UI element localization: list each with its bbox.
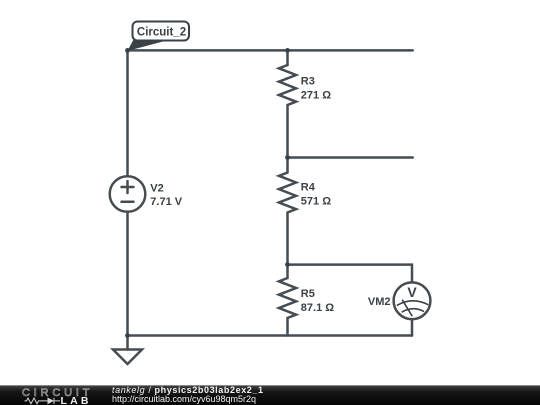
- svg-text:R5: R5: [301, 288, 315, 300]
- svg-text:VM2: VM2: [368, 296, 391, 308]
- svg-text:571 Ω: 571 Ω: [301, 196, 331, 208]
- svg-text:V2: V2: [150, 182, 163, 194]
- svg-text:R4: R4: [301, 182, 316, 194]
- svg-text:V: V: [407, 284, 417, 300]
- svg-text:87.1 Ω: 87.1 Ω: [301, 302, 334, 314]
- svg-text:Circuit_2: Circuit_2: [137, 25, 187, 39]
- svg-text:7.71 V: 7.71 V: [150, 196, 182, 208]
- svg-text:LAB: LAB: [61, 395, 92, 405]
- svg-text:271 Ω: 271 Ω: [301, 90, 331, 102]
- svg-text:R3: R3: [301, 76, 315, 88]
